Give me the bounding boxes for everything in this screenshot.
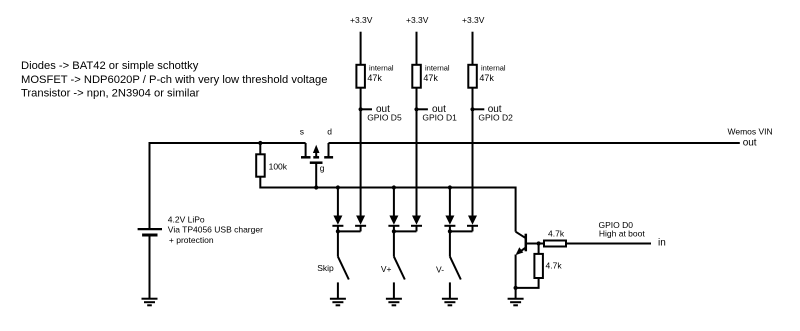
ground (Skip) <box>330 299 346 306</box>
diode D2 (right, Skip) triangle <box>356 216 365 225</box>
wire +3.3V to resistor R2 <box>416 32 418 65</box>
svg-text:+3.3V: +3.3V <box>462 15 485 25</box>
mosfet U1 drain bar <box>324 156 333 159</box>
wire R3 to node GPIO D2 <box>472 88 474 110</box>
mosfet U1 drain lead <box>328 143 330 157</box>
svg-text:+ protection: + protection <box>169 235 214 245</box>
diode D6 (right, V-) triangle <box>468 216 477 225</box>
wire 100k bottom lead to gate rail <box>260 177 515 188</box>
svg-text:4.7k: 4.7k <box>546 261 563 271</box>
wire +3.3V to resistor R3 <box>472 32 474 65</box>
transistor Q1 base bar <box>525 234 528 252</box>
node 100k top junction dot <box>258 141 262 145</box>
wire VIN rail right segment to out <box>329 142 740 144</box>
wire 100k top lead <box>259 143 261 154</box>
svg-text:V-: V- <box>436 265 444 275</box>
node diode branch 3 dot on gate rail <box>448 185 452 189</box>
wire joiner Skip pair <box>338 230 361 232</box>
switch SW1 blade <box>338 257 349 280</box>
node diode branch 2 dot on gate rail <box>392 185 396 189</box>
diode D2 cathode bar <box>355 225 366 227</box>
transistor Q1 collector wire from gate rail <box>515 187 517 232</box>
wire base dot to R6 <box>538 244 540 254</box>
transistor Q1 emitter diagonal <box>517 248 526 254</box>
svg-text:High at boot: High at boot <box>599 229 645 239</box>
node base junction dot <box>537 241 541 245</box>
mosfet U1 source lead <box>305 143 307 157</box>
svg-text:4.7k: 4.7k <box>548 228 565 238</box>
switch SW2 blade <box>394 257 405 280</box>
switch SW3 lower lead <box>449 282 451 298</box>
svg-text:g: g <box>320 163 325 173</box>
transistor Q1 emitter wire <box>515 255 517 288</box>
node GPIO D5 junction dot <box>359 107 363 111</box>
diode D4 (right, V+) triangle <box>412 216 421 225</box>
diode D1 (left, Skip) anode lead <box>337 188 339 216</box>
node diode branch 1 dot on gate rail <box>336 185 340 189</box>
node joiner V- dot <box>448 229 452 233</box>
wire emitter node to ground <box>515 288 517 299</box>
transistor Q1 collector diagonal <box>516 232 526 239</box>
wire joiner V- pair <box>450 230 473 232</box>
diode D5 (left, V-) anode lead <box>449 188 451 216</box>
svg-text:internal: internal <box>369 64 394 73</box>
node joiner Skip dot <box>336 229 340 233</box>
node GPIO D2 junction dot <box>470 107 474 111</box>
wire R5 to in <box>566 243 651 245</box>
resistor R3 internal 47k <box>468 65 477 88</box>
wire joiner V+ pair <box>394 230 417 232</box>
wire GPIO D5 vertical to diode D2a <box>360 109 362 215</box>
node joiner V+ dot <box>392 229 396 233</box>
wire battery to ground <box>149 237 151 299</box>
node GPIO D1 junction dot <box>414 107 418 111</box>
diode D1 cathode lead <box>337 226 339 232</box>
svg-text:GPIO D2: GPIO D2 <box>478 112 513 122</box>
diode D5 cathode bar <box>444 225 455 227</box>
switch SW3 blade <box>450 257 461 280</box>
ground (battery) <box>142 299 158 306</box>
resistor R5 4.7k horizontal <box>544 241 566 247</box>
tick out (GPIO D1) <box>417 108 428 110</box>
svg-text:Skip: Skip <box>317 263 334 273</box>
diode D3 cathode lead <box>393 226 395 232</box>
diode D5 triangle <box>445 216 454 225</box>
ground (V+) <box>386 299 402 306</box>
wire +3.3V to resistor R1 <box>360 32 362 65</box>
diode D5 cathode lead <box>449 226 451 232</box>
mosfet U1 source bar <box>301 156 311 159</box>
wire R2 to node GPIO D1 <box>416 88 418 110</box>
wire VIN rail left segment <box>150 143 306 229</box>
wire R1 to node GPIO D5 <box>360 88 362 110</box>
resistor R6 4.7k vertical <box>534 254 543 278</box>
resistor R1 internal 47k <box>356 65 365 88</box>
svg-text:in: in <box>658 237 666 248</box>
wire GPIO D2 vertical to diode D6a <box>472 109 474 215</box>
svg-text:Diodes -> BAT42 or simple scho: Diodes -> BAT42 or simple schottky <box>21 60 199 72</box>
svg-text:V+: V+ <box>381 264 392 274</box>
switch SW2 lower lead <box>393 282 395 298</box>
diode D1 triangle <box>333 216 342 225</box>
node emitter junction dot <box>514 286 518 290</box>
svg-text:d: d <box>327 127 332 137</box>
switch SW2 V+ upper lead <box>393 231 395 256</box>
svg-text:Wemos VIN: Wemos VIN <box>728 126 773 136</box>
svg-text:47k: 47k <box>479 73 494 83</box>
ground (V-) <box>442 299 458 306</box>
svg-text:4.2V LiPo: 4.2V LiPo <box>168 214 205 224</box>
diode D6 cathode lead <box>472 226 474 232</box>
svg-text:47k: 47k <box>423 73 438 83</box>
svg-text:+3.3V: +3.3V <box>350 15 373 25</box>
svg-text:+3.3V: +3.3V <box>406 15 429 25</box>
diode D6 cathode bar <box>467 225 478 227</box>
svg-text:GPIO D5: GPIO D5 <box>367 112 402 122</box>
resistor R4 100k <box>256 154 265 176</box>
ground (emitter) <box>508 299 524 306</box>
svg-text:47k: 47k <box>367 73 382 83</box>
svg-text:internal: internal <box>425 64 450 73</box>
switch SW3 V- upper lead <box>449 231 451 256</box>
battery BT1 bottom bar (short thick) <box>142 234 157 237</box>
diode D4 cathode lead <box>416 226 418 232</box>
transistor Q1 emitter arrowhead <box>516 247 524 255</box>
mosfet U1 body arrow <box>315 151 317 157</box>
switch SW1 lower lead <box>337 282 339 298</box>
svg-text:GPIO D1: GPIO D1 <box>422 112 457 122</box>
svg-text:internal: internal <box>481 64 506 73</box>
battery BT1 top bar (long) <box>138 228 162 230</box>
diode D2 cathode lead <box>360 226 362 232</box>
switch SW1 Skip upper lead <box>337 231 339 256</box>
tick out (GPIO D2) <box>473 108 485 110</box>
tick out (GPIO D5) <box>361 108 372 110</box>
svg-text:100k: 100k <box>269 161 288 171</box>
svg-text:Via TP4056 USB charger: Via TP4056 USB charger <box>168 225 263 235</box>
mosfet U1 gate bar <box>310 161 323 164</box>
mosfet U1 gate lead <box>315 163 317 188</box>
diode D3 (left, V+) anode lead <box>393 188 395 216</box>
wire R6 bottom to emitter node <box>516 278 539 288</box>
svg-text:s: s <box>300 127 304 137</box>
node gate junction dot <box>314 185 318 189</box>
diode D3 cathode bar <box>388 225 399 227</box>
diode D3 triangle <box>389 216 398 225</box>
wire GPIO D1 vertical to diode D4a <box>416 109 418 215</box>
svg-text:MOSFET -> NDP6020P / P-ch with: MOSFET -> NDP6020P / P-ch with very low … <box>21 74 327 86</box>
diode D1 cathode bar <box>332 225 343 227</box>
svg-text:out: out <box>743 137 757 148</box>
mosfet U1 body bar <box>313 156 319 159</box>
svg-text:Transistor -> npn, 2N3904 or s: Transistor -> npn, 2N3904 or similar <box>21 88 200 100</box>
diode D4 cathode bar <box>411 225 422 227</box>
transistor Q1 base wire <box>526 243 544 245</box>
resistor R2 internal 47k <box>412 65 421 88</box>
